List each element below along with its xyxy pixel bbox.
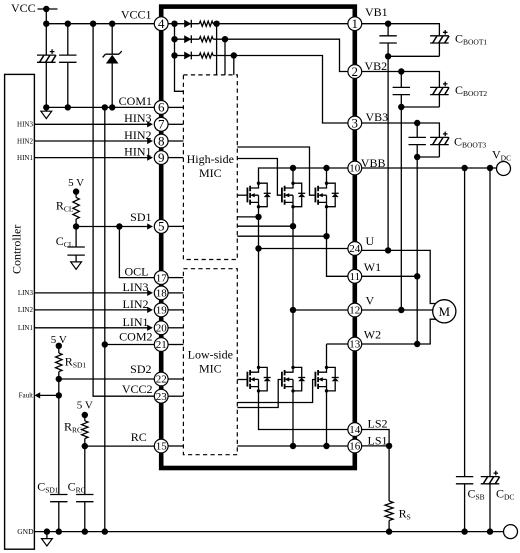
pin 21 COM2: [154, 338, 168, 352]
svg-text:GND: GND: [17, 527, 34, 536]
pin 7 HIN3: [154, 117, 168, 132]
svg-text:W1: W1: [364, 260, 381, 274]
svg-text:10: 10: [349, 163, 361, 175]
wire pin22 stub: [168, 378, 183, 380]
pin 18 LIN3: [154, 286, 168, 300]
svg-text:SD1: SD1: [130, 210, 151, 224]
junction dots LS1: [290, 443, 296, 449]
junction dots on COM1 rail: [43, 104, 49, 110]
svg-text:SD2: SD2: [130, 362, 151, 376]
wire COM bus COM1-COM2-GND: [104, 107, 106, 531]
junction V column: [290, 307, 296, 313]
svg-text:VCC2: VCC2: [122, 382, 153, 396]
diode D2 (bootstrap): [184, 35, 191, 43]
svg-text:4: 4: [158, 16, 165, 31]
wire V row to pin 12: [293, 309, 348, 311]
svg-text:5 V: 5 V: [68, 177, 84, 189]
wire GND rail: [34, 531, 503, 533]
pin 9 HIN1: [154, 150, 168, 165]
svg-text:CSB: CSB: [468, 486, 485, 501]
wire VB2 external: [362, 72, 440, 88]
svg-text:12: 12: [349, 305, 360, 317]
wire V phase column: [292, 208, 294, 368]
svg-text:MIC: MIC: [199, 362, 222, 376]
wire source sense V: [237, 225, 293, 227]
svg-text:8: 8: [158, 133, 165, 148]
junction dots row 1: [171, 21, 177, 27]
wire pin23 stub: [168, 395, 183, 397]
pin 16 LS1: [348, 439, 362, 453]
transistor Q4 (low-side U): [247, 366, 270, 393]
wire SD1: [76, 226, 148, 228]
capacitor CBOOT2 electrolytic: [430, 82, 449, 107]
capacitor C2 ceramic (VCC decoupling): [59, 24, 76, 108]
pin 2 VB2: [348, 64, 362, 79]
junction dots row 3: [171, 52, 177, 58]
pin 19 LIN2: [154, 303, 168, 317]
junction SD2: [56, 376, 62, 382]
wire internal row 2 to VB2: [175, 39, 348, 71]
resistor R3 (bootstrap): [199, 53, 213, 58]
wire source sense U: [237, 216, 258, 218]
wire LS2 external: [362, 430, 389, 446]
wire COM2 to pin 21: [105, 344, 155, 346]
wire pin8 stub: [168, 140, 183, 142]
svg-text:CBOOT1: CBOOT1: [455, 31, 487, 46]
pin 20 LIN1: [154, 321, 168, 335]
svg-text:5: 5: [158, 219, 165, 234]
capacitor CCL: [67, 227, 84, 256]
svg-text:RCL: RCL: [56, 199, 74, 214]
svg-text:11: 11: [350, 271, 361, 283]
svg-text:VCC1: VCC1: [121, 8, 152, 22]
wire VB1 external: [362, 24, 440, 36]
svg-text:HIN2: HIN2: [17, 137, 33, 145]
svg-text:14: 14: [349, 424, 361, 436]
wire Q4 source to pin 14: [259, 392, 348, 430]
svg-text:17: 17: [156, 272, 168, 284]
pin 13 W2: [348, 337, 362, 351]
wire Fault node down to CSD1: [58, 395, 60, 494]
svg-text:VB1: VB1: [365, 5, 388, 19]
wire bootstrap U column to U line: [387, 56, 389, 250]
wire HIN1: [34, 157, 148, 159]
wire pin19 stub: [168, 309, 183, 311]
wire V external to motor: [362, 309, 433, 311]
svg-text:VBB: VBB: [361, 156, 386, 170]
pin 22 SD2: [154, 372, 168, 386]
svg-text:VDC: VDC: [492, 148, 511, 163]
svg-text:LIN3: LIN3: [18, 289, 34, 297]
pin 17 OCL: [154, 271, 168, 285]
motor M: [433, 300, 456, 323]
wire SD2: [59, 378, 155, 380]
svg-text:CRC: CRC: [68, 479, 86, 494]
wire high-side gate drive W: [237, 147, 315, 195]
capacitor VB1 ceramic: [379, 24, 396, 57]
svg-text:LIN1: LIN1: [18, 324, 34, 332]
capacitor CSB: [456, 168, 473, 532]
capacitor C1 electrolytic (VCC bulk): [37, 49, 56, 107]
svg-text:15: 15: [156, 441, 168, 453]
op-amp block U1A high-side MIC box: [183, 75, 237, 260]
wire Q6 source to LS1: [326, 392, 328, 446]
svg-text:V: V: [366, 294, 375, 308]
wire VCC rail: [46, 23, 154, 25]
wire pin5 stub: [168, 225, 183, 227]
capacitor CBOOT3 electrolytic: [430, 132, 449, 157]
wire RC: [85, 445, 155, 447]
pin 5 SD1: [154, 219, 168, 234]
ground (under GND rail): [42, 532, 53, 546]
wire VCC1 entry into high-side MIC: [175, 24, 184, 92]
junction Fault: [56, 392, 62, 398]
wire low-side gate drive V: [237, 380, 282, 408]
wire LIN3: [34, 292, 148, 294]
svg-text:COM2: COM2: [119, 330, 152, 344]
wire W1 from Q3 source to pin 11: [327, 208, 348, 277]
svg-text:W2: W2: [364, 327, 381, 341]
wire W2 from pin 13 to low-side drain: [327, 344, 348, 367]
wire VB3 bottom return: [417, 156, 439, 158]
pin 8 HIN2: [154, 133, 168, 148]
wire internal row 3 to VB3: [175, 56, 348, 124]
svg-text:7: 7: [158, 117, 165, 132]
svg-text:3: 3: [352, 115, 359, 130]
svg-text:20: 20: [156, 323, 168, 335]
svg-text:RRC: RRC: [64, 419, 82, 434]
wire LIN1: [34, 327, 148, 329]
wire high-side gate drive V: [237, 159, 282, 196]
junction dots on VCC rail: [43, 21, 49, 27]
transistor Q6 (low-side W): [315, 366, 338, 393]
wire HIN3: [34, 123, 148, 125]
pin 12 V: [348, 303, 362, 317]
svg-text:High-side: High-side: [187, 152, 234, 166]
svg-text:13: 13: [349, 339, 361, 351]
svg-text:Controller: Controller: [9, 225, 23, 274]
pin 23 VCC2: [154, 389, 168, 403]
svg-text:LIN3: LIN3: [123, 280, 149, 294]
wire RSD1 junction down to Fault node: [58, 379, 60, 395]
wire pin20 stub: [168, 327, 183, 329]
resistor RCL: [73, 192, 79, 227]
capacitor CBOOT1 electrolytic: [430, 30, 449, 56]
svg-text:M: M: [439, 304, 451, 319]
wire VBB rail internal: [259, 168, 348, 183]
svg-text:6: 6: [158, 100, 165, 115]
svg-text:HIN3: HIN3: [124, 111, 151, 125]
wire internal row VCC1 to VB1: [168, 23, 348, 25]
svg-text:Fault: Fault: [19, 392, 33, 400]
junction VCC stub: [43, 6, 49, 12]
op-amp block U1B low-side MIC box: [183, 269, 237, 455]
capacitor VB2 ceramic: [393, 72, 410, 108]
wire COM1 rail: [46, 106, 154, 108]
svg-text:HIN3: HIN3: [17, 121, 33, 129]
svg-text:CBOOT2: CBOOT2: [455, 83, 487, 98]
transistor Q5 (low-side V): [282, 366, 305, 393]
svg-text:RS: RS: [399, 506, 411, 521]
junction dots on GND rail: [44, 528, 50, 534]
wire pin21 stub: [168, 344, 183, 346]
junction COM2: [102, 341, 108, 347]
svg-text:VB2: VB2: [365, 59, 388, 73]
transistor Q1 (high-side U): [247, 182, 270, 209]
wire VCC to VCC2 riser: [93, 24, 154, 397]
wire VB1 bottom return: [388, 55, 439, 57]
pin 10 VBB: [348, 161, 362, 175]
pin 6 COM1: [154, 100, 168, 115]
resistor R2 (bootstrap): [199, 37, 213, 42]
wire pin9 stub: [168, 157, 183, 159]
wire low-side gate drive U: [237, 379, 247, 381]
svg-text:Low-side: Low-side: [188, 348, 233, 362]
svg-text:MIC: MIC: [199, 166, 222, 180]
junction OCL riser on SD1: [116, 223, 122, 229]
svg-text:COM1: COM1: [119, 94, 152, 108]
pin 14 LS2: [348, 423, 362, 437]
junction dots row 2: [171, 36, 177, 42]
svg-text:OCL: OCL: [125, 265, 149, 279]
transistor Q3 (high-side W): [315, 182, 338, 209]
wire U external to motor: [362, 250, 437, 303]
svg-text:22: 22: [156, 374, 167, 386]
controller box: [5, 74, 35, 549]
wire bootstrap V column to V line: [400, 107, 402, 310]
svg-text:RC: RC: [131, 430, 147, 444]
pin 15 RC: [154, 439, 168, 453]
svg-text:19: 19: [156, 305, 168, 317]
wire LS1 row: [237, 445, 348, 447]
wire pin15 stub: [168, 445, 183, 447]
resistor RSD1: [56, 346, 62, 379]
wire high-side gate drive U: [237, 194, 247, 196]
wire VCC stub: [38, 8, 58, 10]
svg-text:LIN1: LIN1: [123, 315, 149, 329]
wire VBB to VDC: [362, 167, 497, 169]
svg-text:LIN2: LIN2: [123, 297, 149, 311]
junction dots source sense: [255, 214, 261, 220]
pin 4 VCC1: [154, 16, 168, 31]
svg-text:VB3: VB3: [366, 110, 389, 124]
node GND terminal: [504, 525, 518, 539]
capacitor CSD1: [50, 495, 67, 532]
svg-text:24: 24: [349, 243, 361, 255]
wire U phase column: [258, 208, 260, 368]
wire OCL riser to pin 17: [119, 227, 154, 278]
wire VB2 bottom return: [401, 106, 439, 108]
svg-text:5 V: 5 V: [77, 400, 93, 412]
wire pin6 stub: [168, 106, 183, 108]
resistor RS (shunt): [385, 446, 393, 532]
svg-text:VCC: VCC: [11, 1, 36, 15]
svg-text:LS2: LS2: [368, 417, 388, 431]
svg-text:CBOOT3: CBOOT3: [454, 134, 486, 149]
svg-text:18: 18: [156, 288, 168, 300]
IC U1 package outline: [161, 7, 355, 468]
wire Q5 source to LS1: [292, 392, 294, 446]
junction U column: [255, 245, 261, 251]
svg-text:HIN1: HIN1: [17, 154, 33, 162]
svg-text:CDC: CDC: [496, 486, 514, 501]
svg-text:CSD1: CSD1: [37, 479, 59, 494]
pin 11 W1: [348, 269, 362, 283]
svg-text:HIN1: HIN1: [124, 144, 151, 158]
wire LIN2: [34, 309, 148, 311]
wire bootstrap W column to W1/W2: [416, 157, 418, 344]
svg-text:1: 1: [352, 16, 359, 31]
wire low-side gate drive W: [237, 380, 315, 403]
svg-text:LIN2: LIN2: [18, 306, 34, 314]
svg-text:23: 23: [156, 391, 168, 403]
wire VCC vertical drop to C1: [45, 9, 47, 55]
transistor Q2 (high-side V): [282, 182, 305, 209]
svg-text:HIN2: HIN2: [124, 128, 151, 142]
ground (signal, under COM1): [41, 107, 52, 118]
wire pin17 stub: [168, 277, 183, 279]
wire source sense W: [237, 235, 326, 237]
wire bootstrap feeds into high-side MIC: [217, 24, 234, 75]
wire U row to pin 24: [259, 248, 348, 250]
junction RC: [82, 443, 88, 449]
wire W1 external: [362, 275, 418, 277]
junction SD1/RCL/CCL: [73, 223, 79, 229]
resistor RRC: [82, 415, 88, 446]
wire pin7 stub: [168, 123, 183, 125]
node VDC terminal: [497, 162, 511, 176]
capacitor CRC: [76, 495, 93, 532]
svg-text:LS1: LS1: [368, 434, 388, 448]
wire HIN2: [34, 140, 148, 142]
resistor R1 (bootstrap): [199, 21, 213, 26]
ground (under CCL): [71, 255, 82, 269]
svg-text:9: 9: [158, 150, 165, 165]
capacitor VB3 ceramic: [409, 123, 426, 157]
wire pin18 stub: [168, 292, 183, 294]
svg-text:CCL: CCL: [56, 234, 74, 249]
capacitor CDC electrolytic: [481, 168, 500, 532]
svg-text:2: 2: [352, 64, 359, 79]
svg-text:16: 16: [349, 441, 361, 453]
wire Fault: [39, 394, 59, 396]
diode D3 (bootstrap): [184, 52, 191, 60]
wire VB3 external: [362, 123, 440, 137]
svg-text:U: U: [366, 234, 375, 248]
wire W2 external to motor: [362, 319, 437, 344]
diode D1 (bootstrap): [184, 20, 191, 28]
pin 24 U: [348, 242, 362, 256]
wire LS1 external: [362, 445, 389, 447]
svg-text:21: 21: [156, 339, 167, 351]
junction dots VBB rail: [290, 165, 296, 171]
zener diode ZD1: [103, 24, 122, 108]
pin 1 VB1: [348, 16, 362, 31]
pin 3 VB3: [348, 115, 362, 130]
wire RC junction down to CRC: [84, 446, 86, 494]
svg-text:RSD1: RSD1: [65, 355, 87, 370]
